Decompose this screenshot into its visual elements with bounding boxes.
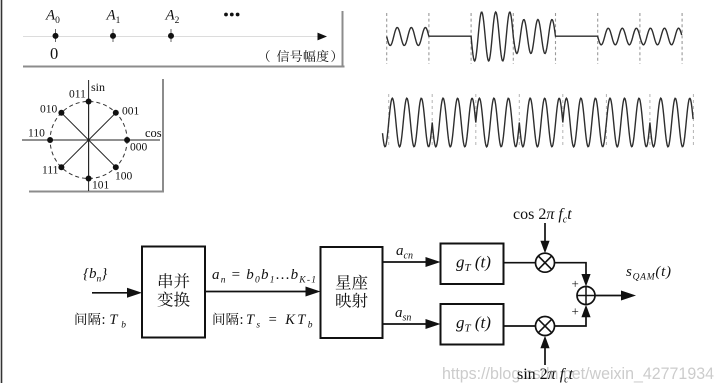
svg-text:sin: sin bbox=[91, 80, 105, 94]
multiplier M1 bbox=[536, 253, 555, 272]
label 间隔:Tb bbox=[76, 312, 127, 331]
svg-text:110: 110 bbox=[28, 128, 45, 140]
wire U1 to U2 (an bus) bbox=[205, 287, 321, 297]
svg-text:0: 0 bbox=[50, 44, 58, 63]
svg-text:010: 010 bbox=[40, 104, 58, 116]
label （信号幅度） bbox=[266, 50, 335, 62]
wire asn bbox=[383, 319, 441, 329]
dashed constellation circle bbox=[50, 102, 127, 179]
node dot A1 bbox=[110, 33, 116, 39]
wire M1 to adder bbox=[555, 263, 591, 287]
label 间隔:Ts = KTb bbox=[214, 312, 313, 331]
constant-envelope carrier waveform bbox=[383, 98, 694, 147]
svg-text:https://blog.csdn.net/weixin_4: https://blog.csdn.net/weixin_42771934 bbox=[442, 365, 714, 383]
svg-text:gT (t): gT (t) bbox=[456, 313, 491, 335]
constellation point dots bbox=[47, 99, 130, 182]
svg-text:101: 101 bbox=[92, 180, 110, 192]
svg-text:cos: cos bbox=[145, 126, 162, 140]
amplitude panel bottom border bbox=[23, 66, 345, 68]
adder S1 bbox=[577, 287, 595, 305]
radial lines to constellation points bbox=[50, 102, 127, 179]
block U3 gT(t) top filter bbox=[441, 244, 504, 285]
symbol interval dashed lines (bottom waveform) bbox=[389, 94, 694, 147]
wire acn bbox=[383, 257, 441, 267]
wire output sQAM bbox=[595, 291, 636, 301]
amplitude axis line bbox=[23, 36, 318, 38]
node dot A2 bbox=[168, 33, 174, 39]
block U1 串并变换 (serial-to-parallel) bbox=[142, 247, 205, 338]
amplitude panel right border bbox=[342, 11, 344, 68]
constellation panel right border bbox=[162, 79, 164, 193]
wire input {bn} bbox=[92, 288, 142, 298]
svg-text:{bn}: {bn} bbox=[83, 266, 107, 285]
wire U4 to multiplier M2 bbox=[504, 325, 536, 327]
node dot A0 bbox=[53, 33, 59, 39]
block U2 星座映射 (constellation mapping) bbox=[321, 247, 383, 338]
wire sin carrier into M2 bbox=[540, 336, 549, 365]
svg-text::Ts = KTb: :Ts = KTb bbox=[240, 312, 313, 331]
svg-text:011: 011 bbox=[69, 89, 86, 101]
cos axis bbox=[22, 139, 160, 141]
ellipsis dots bbox=[224, 13, 239, 17]
tick mark A2 bbox=[170, 29, 172, 42]
svg-text:gT (t): gT (t) bbox=[456, 253, 491, 275]
tick mark A0 bbox=[55, 29, 57, 42]
svg-text:001: 001 bbox=[122, 106, 140, 118]
constellation panel bottom border bbox=[29, 191, 164, 193]
amplitude axis arrowhead bbox=[318, 33, 328, 41]
svg-text:+: + bbox=[572, 276, 579, 291]
wire U3 to multiplier M1 bbox=[504, 262, 536, 264]
symbol interval dashed lines (top waveform) bbox=[387, 13, 682, 64]
left page border line bbox=[1, 0, 3, 383]
multiplier M2 bbox=[536, 317, 555, 336]
svg-text:000: 000 bbox=[130, 142, 148, 154]
QAM amplitude waveform bbox=[387, 12, 682, 61]
wire M2 to adder bbox=[555, 305, 591, 326]
svg-text:+: + bbox=[572, 304, 579, 319]
tick mark A1 bbox=[112, 29, 114, 42]
sin axis bbox=[88, 80, 90, 191]
svg-text:111: 111 bbox=[42, 165, 59, 177]
wire cos carrier into M1 bbox=[540, 223, 549, 253]
block U4 gT(t) bottom filter bbox=[441, 304, 504, 345]
svg-text:100: 100 bbox=[115, 171, 133, 183]
